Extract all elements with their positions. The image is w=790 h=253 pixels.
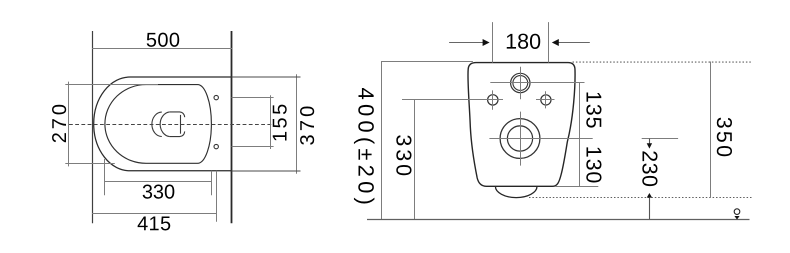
wire: 370 bottom extension (232, 170, 301, 172)
wire: fixing hole right vertical tick (545, 91, 547, 108)
wire: left extension line (500/415 front tangent) (92, 31, 94, 223)
wire: top dotted level line (573, 61, 752, 63)
dimension 180: left arrow (449, 42, 483, 44)
dimension 415 line (92, 213, 217, 215)
dimension 230: top reference line (642, 138, 678, 140)
svg-text:230: 230 (638, 150, 662, 187)
svg-text:350: 350 (712, 117, 736, 159)
dimension 400(+-20) line (381, 62, 383, 220)
wire: bottom extension at toilet base (555, 186, 598, 188)
seat bolt hole bottom (214, 144, 218, 148)
wire: 330 top extension through left hole (402, 99, 503, 101)
wire: 400 top extension (381, 61, 473, 63)
wire: drain horizontal centerline / 130 extension (489, 138, 592, 140)
dashed centerline (69, 124, 272, 126)
drain top edge (170, 112, 185, 117)
wire: 330 left extension (104, 159, 106, 195)
svg-text:500: 500 (146, 30, 180, 52)
wire: 415 right extension (216, 171, 218, 222)
fixing hole right (541, 95, 551, 105)
wire: fixing hole left vertical tick (492, 90, 494, 109)
svg-text:330: 330 (391, 134, 415, 179)
wire: drain vertical centerline (520, 112, 522, 166)
wire: inlet vertical centerline (520, 67, 522, 100)
wire: floor line (367, 219, 750, 221)
wire: 155 top extension (232, 97, 274, 99)
wire: 155 bottom extension (232, 146, 274, 148)
dimension 330 (rear) line (414, 100, 416, 220)
wire: 270 top extension (65, 84, 158, 86)
wire: 270 bottom extension (65, 163, 115, 165)
svg-text:330: 330 (142, 181, 175, 203)
dimension 230: down arrow (649, 139, 651, 145)
svg-text:370: 370 (297, 103, 319, 146)
toilet outer ceramic outline (94, 77, 232, 171)
wire: 370 top extension (232, 76, 301, 78)
svg-text:180: 180 (505, 30, 541, 54)
wire: back wall edge / right extension of 500 (231, 31, 233, 223)
water inlet inner circle (513, 76, 528, 91)
water inlet outer circle (511, 73, 530, 92)
drain short vertical line (180, 115, 182, 134)
dimension 330 line (105, 181, 212, 183)
wire: 330 right extension (211, 171, 213, 196)
dimension 350 line (710, 62, 712, 198)
drain arc 1 (inner C) (152, 112, 162, 136)
svg-text:155: 155 (270, 101, 292, 142)
toilet body outline (rear) (468, 63, 575, 187)
wire: fixing hole right horizontal tick (536, 99, 555, 101)
drain outlet outer circle (500, 119, 540, 159)
svg-text:270: 270 (49, 101, 71, 143)
seat bolt hole top (214, 95, 218, 99)
dimension 500 line (92, 48, 232, 50)
dimension 135/130 shared line (579, 83, 581, 187)
drain arc 2 (outer C) (160, 112, 170, 137)
svg-text:400(±20): 400(±20) (353, 88, 378, 210)
wire: bottom dotted level line (spigot bottom) (529, 197, 752, 199)
drain spigot bump (495, 186, 537, 197)
dimension 270 line (68, 82, 70, 167)
svg-text:415: 415 (137, 213, 171, 235)
dimension 230: up arrow with stem (647, 193, 652, 198)
ground level symbol (734, 209, 740, 215)
dimension 180: right extension line (548, 22, 550, 63)
svg-text:135: 135 (581, 91, 605, 130)
wire: inlet horizontal centerline / 135 extension (490, 82, 584, 84)
svg-text:130: 130 (581, 146, 605, 185)
dimension 370 line (296, 74, 298, 174)
drain outlet inner circle (507, 126, 532, 151)
dimension 155 line (270, 95, 272, 149)
fixing hole left (488, 95, 498, 105)
dimension 180: left extension line (492, 22, 494, 63)
seat outline (105, 85, 212, 164)
dimension 180: right arrow (558, 42, 590, 44)
drain bottom edge (170, 131, 185, 136)
